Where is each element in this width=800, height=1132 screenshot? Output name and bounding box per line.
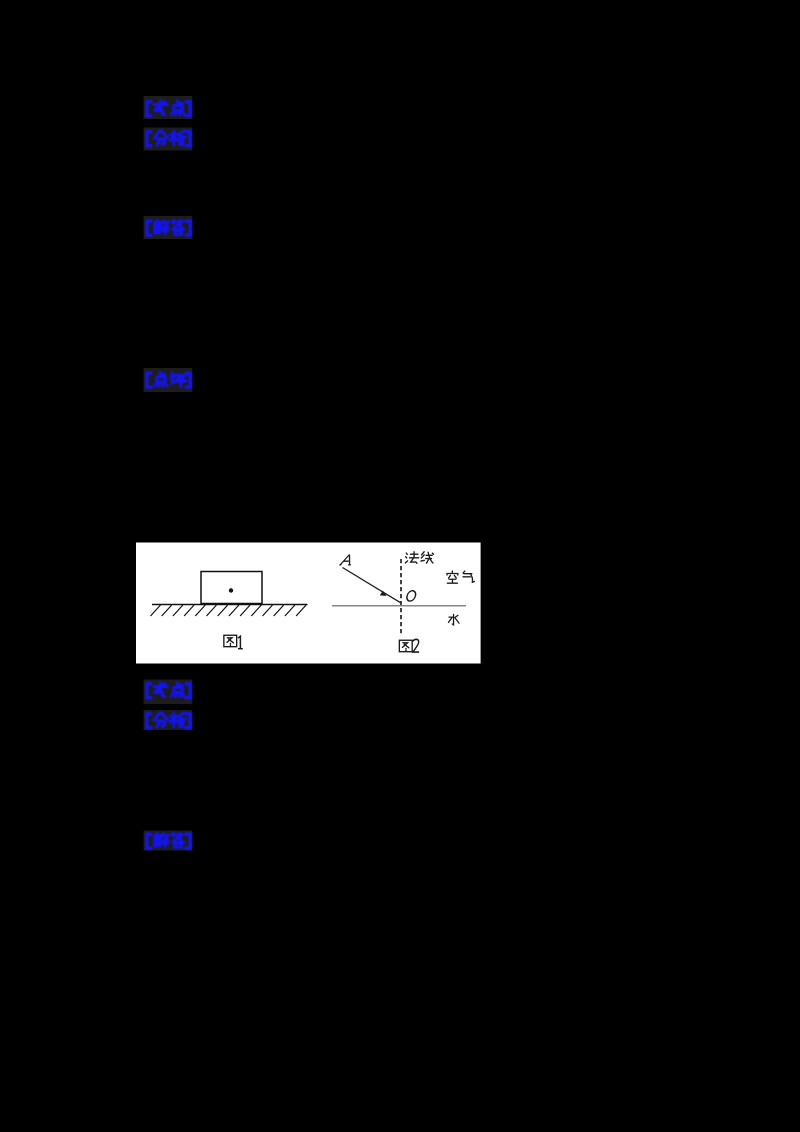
label highlight box 6 bbox=[144, 710, 193, 730]
caption 图1 bbox=[224, 635, 237, 646]
label 【考点】 (section 2) bbox=[147, 683, 190, 698]
label highlight box 2 bbox=[144, 128, 193, 151]
normal (dashed line) bbox=[400, 559, 402, 634]
block rectangle (fig 1) bbox=[201, 572, 262, 604]
label 【分析】 (section 1) bbox=[147, 131, 190, 146]
incident ray A to O bbox=[343, 568, 401, 603]
label highlight box 7 bbox=[144, 831, 193, 851]
label 【点评】 (section 1) bbox=[147, 372, 190, 387]
label 法线 bbox=[405, 552, 433, 564]
dot in block bbox=[229, 588, 233, 592]
arrowhead on ray bbox=[380, 591, 387, 596]
water surface line bbox=[332, 605, 466, 607]
label highlight box 1 bbox=[144, 96, 193, 119]
label highlight box 4 bbox=[144, 368, 193, 392]
ground hatching (fig 1) bbox=[151, 605, 307, 616]
figure panel (white) bbox=[136, 543, 481, 664]
label 【解答】 (section 1) bbox=[147, 220, 190, 235]
point O label (fig 2) bbox=[406, 591, 417, 601]
point A label (fig 2) bbox=[339, 555, 353, 565]
label 空气 bbox=[447, 571, 474, 583]
ground line (fig 1) bbox=[152, 604, 308, 606]
label 【解答】 (section 2) bbox=[147, 833, 190, 848]
label 【考点】 (section 1) bbox=[147, 101, 190, 116]
label 【分析】 (section 2) bbox=[147, 713, 190, 728]
label highlight box 5 bbox=[144, 680, 193, 705]
caption 图2 bbox=[399, 640, 412, 651]
label highlight box 3 bbox=[144, 216, 193, 239]
label 水 bbox=[448, 614, 459, 625]
